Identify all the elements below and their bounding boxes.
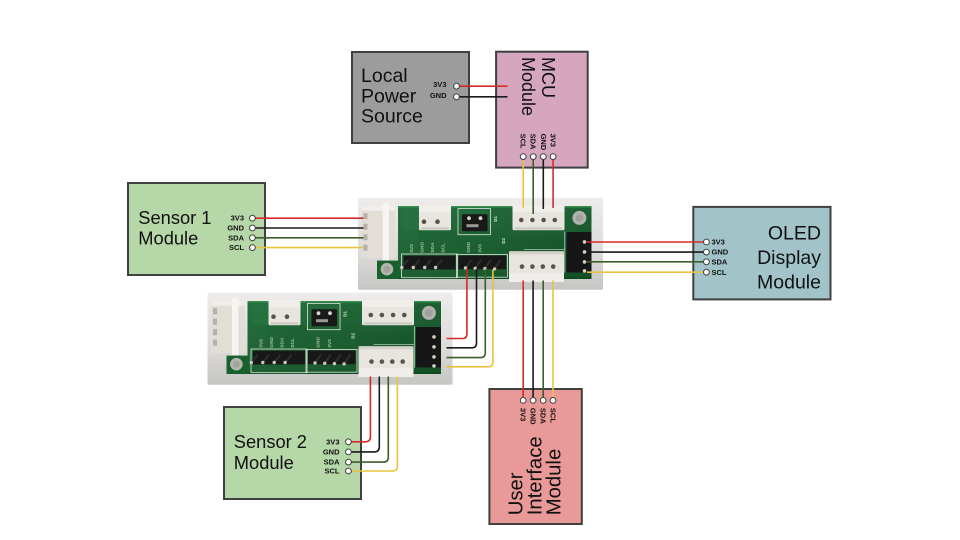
I2C hub PCB photo 1 [358, 198, 603, 290]
svg-text:OLED: OLED [768, 222, 821, 244]
pin GND of MCU [540, 154, 546, 160]
wire SCL MCU-to-hub1 (yellow) [522, 157, 524, 208]
svg-text:3V3: 3V3 [519, 408, 528, 421]
module User Interface [489, 389, 581, 524]
wire SCL hub1-to-hub2 (yellow) [447, 270, 493, 367]
svg-text:Power: Power [361, 85, 417, 107]
pin GND of sensor2 [346, 449, 352, 455]
wire 3V3 hub1-to-OLED (red) [587, 241, 706, 243]
svg-text:3V3: 3V3 [326, 437, 339, 446]
wire SDA hub1-to-UI (green) [542, 281, 544, 401]
svg-text:Display: Display [757, 247, 821, 269]
wire SDA hub2-to-sensor2 (green) [351, 377, 388, 463]
module OLED Display [693, 207, 830, 300]
svg-text:Module: Module [757, 271, 821, 293]
wire 3V3 power-to-MCU (red) [457, 85, 508, 87]
svg-text:Module: Module [138, 228, 198, 249]
svg-text:3V3: 3V3 [549, 134, 558, 147]
svg-text:SDA: SDA [324, 458, 340, 467]
pin SDA of OLED [704, 259, 710, 265]
svg-text:Source: Source [361, 106, 423, 128]
svg-text:GND: GND [323, 447, 340, 456]
wire GND sensor1-to-hub1 (black) [252, 227, 363, 229]
pin 3V3 of power source [454, 83, 460, 89]
pin 3V3 of sensor2 [346, 439, 352, 445]
module Sensor 1 [128, 183, 265, 275]
wire SCL hub2-to-sensor2 (yellow) [351, 377, 397, 472]
pin SDA of MCU [530, 154, 536, 160]
wire 3V3 sensor1-to-hub1 (red) [252, 217, 363, 219]
svg-text:SCL: SCL [712, 268, 727, 277]
pin 3V3 of sensor1 [250, 215, 256, 221]
wire SCL hub1-to-OLED (yellow) [587, 271, 706, 273]
wire SDA hub1-to-hub2 (green) [447, 269, 486, 357]
pin SCL of OLED [704, 269, 710, 275]
pin GND of sensor1 [250, 225, 256, 231]
wire 3V3 hub1-to-hub2 (red) [447, 269, 467, 339]
svg-text:SCL: SCL [325, 467, 340, 476]
pin SDA of sensor2 [346, 459, 352, 465]
svg-text:SDA: SDA [228, 233, 244, 242]
wire 3V3 MCU-to-hub1 (red) [552, 157, 554, 208]
wire GND hub1-to-UI (black) [532, 281, 534, 401]
svg-text:SCL: SCL [548, 408, 557, 423]
svg-text:GND: GND [712, 248, 729, 257]
wire GND hub1-to-OLED (black) [587, 251, 706, 253]
svg-text:SCL: SCL [519, 134, 528, 149]
wire GND MCU-to-hub1 (black) [542, 157, 544, 209]
wire SCL sensor1-to-hub1 (yellow) [252, 247, 363, 249]
svg-text:SDA: SDA [529, 134, 538, 150]
wire GND power-to-MCU (black) [457, 96, 508, 98]
svg-text:Sensor 1: Sensor 1 [138, 207, 211, 228]
module Local Power Source [352, 52, 469, 143]
svg-text:3V3: 3V3 [231, 214, 244, 223]
pin GND of OLED [704, 249, 710, 255]
svg-text:Local: Local [361, 65, 408, 87]
wire SDA hub1-to-OLED (green) [587, 261, 706, 263]
svg-text:GND: GND [227, 224, 244, 233]
pin SDA of sensor1 [250, 235, 256, 241]
pin GND of power source [454, 94, 460, 100]
svg-text:GND: GND [539, 134, 548, 151]
pin SDA of UI [540, 398, 546, 404]
svg-text:SDA: SDA [712, 257, 728, 266]
pin SCL of sensor1 [250, 245, 256, 251]
svg-text:Sensor 2: Sensor 2 [234, 431, 307, 452]
wire SCL hub1-to-UI (yellow) [552, 281, 554, 401]
wire 3V3 hub2-to-sensor2 (red) [351, 377, 370, 442]
pin SCL of UI [550, 398, 556, 404]
pin 3V3 of OLED [704, 239, 710, 245]
wire SDA MCU-to-hub1 (green) [532, 157, 534, 214]
wire SDA sensor1-to-hub1 (green) [252, 237, 363, 239]
pin SCL of sensor2 [346, 468, 352, 474]
I2C hub PCB photo 2 [208, 293, 453, 385]
pin GND of UI [530, 398, 536, 404]
svg-text:GND: GND [529, 408, 538, 425]
wire 3V3 hub1-to-UI (red) [522, 281, 524, 401]
module MCU [496, 52, 588, 168]
svg-text:3V3: 3V3 [712, 238, 725, 247]
svg-text:SDA: SDA [539, 408, 548, 424]
svg-text:GND: GND [430, 91, 447, 100]
svg-text:3V3: 3V3 [433, 80, 446, 89]
svg-text:Module: Module [234, 452, 294, 473]
wire GND hub2-to-sensor2 (black) [351, 377, 379, 452]
pin SCL of MCU [520, 154, 526, 160]
pin 3V3 of MCU [550, 154, 556, 160]
pin 3V3 of UI [520, 398, 526, 404]
module Sensor 2 [224, 407, 361, 499]
wire GND hub1-to-hub2 (black) [447, 269, 477, 348]
svg-text:SCL: SCL [229, 243, 244, 252]
